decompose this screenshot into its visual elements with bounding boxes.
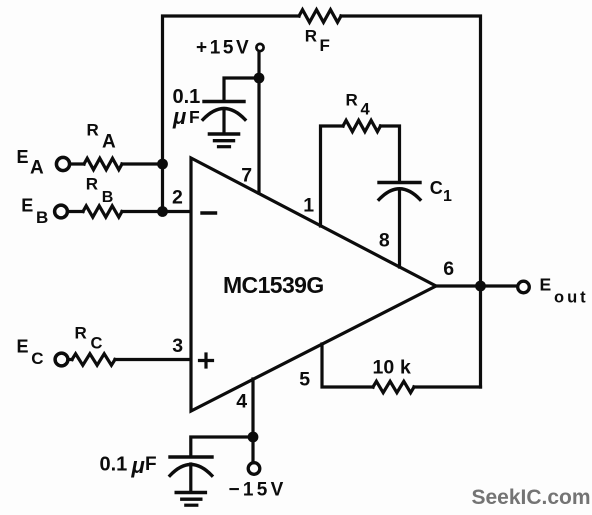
terminal EB bbox=[55, 205, 68, 218]
capacitor C3 0.1uF curved plate bbox=[170, 465, 212, 476]
svg-text:F: F bbox=[189, 107, 200, 127]
svg-text:R: R bbox=[75, 324, 87, 343]
capacitor C2 0.1uF curved plate bbox=[203, 109, 245, 120]
svg-text:A: A bbox=[30, 157, 44, 178]
wire input EA bbox=[69, 162, 84, 165]
svg-text:E: E bbox=[21, 196, 33, 216]
op-amp plus input symbol bbox=[200, 354, 213, 367]
capacitor C3 0.1uF top plate bbox=[170, 455, 212, 458]
capacitor C1 curved plate bbox=[379, 189, 420, 200]
svg-text:6: 6 bbox=[443, 258, 454, 280]
wire 10k to feedback node bbox=[414, 385, 481, 388]
wire RC to pin 3 bbox=[115, 358, 190, 361]
svg-text:μ: μ bbox=[172, 104, 186, 129]
op-amp minus input symbol bbox=[202, 211, 216, 214]
svg-text:2: 2 bbox=[172, 187, 183, 209]
wire pin 5 to 10k bbox=[322, 344, 373, 387]
capacitor C1 top plate bbox=[379, 181, 420, 184]
svg-text:E: E bbox=[17, 147, 29, 167]
ground bottom bbox=[176, 493, 205, 506]
wire input EB bbox=[67, 210, 83, 213]
svg-text:3: 3 bbox=[172, 335, 183, 357]
terminal EA bbox=[56, 157, 69, 170]
wire pin 4 down bbox=[251, 379, 254, 462]
node EB junction bbox=[157, 206, 168, 217]
svg-text:k: k bbox=[400, 356, 411, 378]
svg-text:4: 4 bbox=[361, 101, 371, 119]
wire bypass cap branch bbox=[224, 78, 259, 100]
resistor RB bbox=[83, 206, 122, 217]
wire top feedback right segment bbox=[341, 16, 481, 286]
svg-text:E: E bbox=[540, 275, 552, 295]
wire RA to node bbox=[122, 162, 163, 165]
svg-text:5: 5 bbox=[299, 369, 310, 391]
svg-text:A: A bbox=[102, 132, 116, 153]
wire R4 right leg to C1 bbox=[381, 126, 400, 181]
svg-text:0.1: 0.1 bbox=[100, 453, 128, 475]
wire cap to ground bbox=[222, 109, 225, 134]
resistor R4 bbox=[343, 120, 381, 131]
svg-text:4: 4 bbox=[236, 391, 247, 413]
wire C1 to pin 8 bbox=[398, 190, 401, 268]
resistor RA bbox=[84, 158, 122, 169]
wire RB to pin 2 bbox=[122, 210, 190, 213]
resistor RC bbox=[72, 354, 115, 365]
svg-text:R: R bbox=[346, 91, 358, 110]
capacitor C2 0.1uF top plate bbox=[204, 100, 244, 103]
svg-text:R: R bbox=[86, 174, 98, 193]
svg-text:C: C bbox=[31, 349, 43, 368]
svg-text:B: B bbox=[102, 189, 114, 206]
svg-text:1: 1 bbox=[443, 188, 452, 205]
svg-text:μ: μ bbox=[131, 453, 145, 478]
svg-text:R: R bbox=[305, 27, 317, 46]
svg-text:+15V: +15V bbox=[196, 38, 251, 59]
wire top feedback left segment bbox=[163, 16, 300, 212]
svg-text:MC1539G: MC1539G bbox=[223, 272, 324, 298]
svg-text:C: C bbox=[91, 334, 103, 352]
terminal Eout bbox=[518, 281, 530, 293]
wire input EC bbox=[68, 358, 72, 361]
node output junction bbox=[475, 281, 486, 292]
svg-text:F: F bbox=[145, 454, 157, 475]
node +15V junction bbox=[254, 73, 265, 84]
svg-text:out: out bbox=[554, 289, 589, 307]
svg-text:R: R bbox=[87, 121, 99, 140]
svg-text:B: B bbox=[36, 208, 48, 227]
svg-text:8: 8 bbox=[379, 229, 390, 251]
wire R4 left leg pin 1 bbox=[321, 126, 344, 226]
terminal EC bbox=[55, 353, 68, 366]
svg-text:−15V: −15V bbox=[229, 480, 287, 501]
op-amp U1 triangle bbox=[191, 158, 436, 411]
wire +15V to pin 7 bbox=[257, 52, 260, 193]
svg-text:C: C bbox=[430, 178, 443, 198]
svg-text:E: E bbox=[17, 337, 29, 357]
wire output pin 6 bbox=[436, 284, 518, 287]
svg-text:10: 10 bbox=[373, 356, 395, 378]
terminal +15V bbox=[256, 44, 263, 51]
node -15V junction bbox=[248, 432, 259, 443]
wire bypass branch bottom bbox=[191, 437, 253, 456]
svg-text:SeekIC.com: SeekIC.com bbox=[472, 486, 591, 509]
terminal -15V bbox=[248, 463, 260, 475]
resistor 10k bbox=[373, 381, 414, 392]
ground top bbox=[210, 134, 239, 147]
svg-text:7: 7 bbox=[241, 165, 252, 187]
wire feedback vertical lower (to 10k) bbox=[479, 286, 482, 387]
svg-text:1: 1 bbox=[303, 194, 314, 216]
wire cap to ground bottom bbox=[189, 464, 192, 492]
svg-text:F: F bbox=[320, 36, 330, 55]
resistor RF bbox=[299, 10, 341, 23]
node EA junction bbox=[157, 159, 168, 170]
